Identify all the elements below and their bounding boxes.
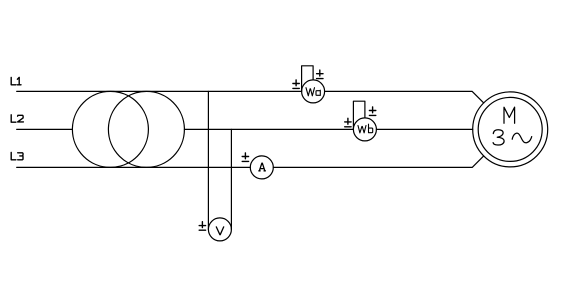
voltmeter V1 polarity mark: [199, 222, 205, 231]
voltmeter V1: [208, 218, 231, 241]
ammeter A1 polarity mark: [242, 153, 248, 162]
motor M1 letter M: [504, 107, 515, 123]
wire L3 ammeter to motor: [273, 156, 483, 168]
wire L3 terminal to ammeter: [17, 166, 251, 168]
motor M1 tilde: [512, 133, 532, 143]
motor M1 digit 3: [493, 130, 504, 145]
motor M1 outer circle: [473, 92, 548, 167]
wattmeter Wa: [302, 80, 325, 103]
wire L2 wattmeter Wb to motor: [376, 128, 472, 130]
transformer T1 right winding: [108, 91, 184, 167]
wattmeter Wb polarity mark right: [369, 107, 375, 116]
transformer T1 left winding: [72, 91, 148, 167]
wire L2 terminal to transformer: [17, 128, 73, 130]
wattmeter Wa polarity mark left: [293, 80, 299, 89]
motor M1 inner circle: [478, 97, 542, 161]
wire L1 wattmeter Wa to motor: [325, 91, 484, 103]
wattmeter Wb polarity mark left: [345, 118, 351, 127]
wire L2 transformer to wattmeter Wb: [184, 128, 353, 130]
wire voltmeter tap from L2: [230, 129, 232, 229]
wattmeter Wb voltage-coil loop: [353, 101, 365, 129]
wire L1 terminal to wattmeter Wa: [17, 90, 302, 92]
node L2: [11, 115, 23, 122]
wattmeter Wb: [353, 118, 376, 141]
node L3: [11, 152, 23, 159]
node L1: [11, 77, 21, 84]
ammeter A1: [250, 156, 273, 179]
wattmeter Wa voltage-coil loop: [302, 66, 314, 92]
wattmeter Wa polarity mark right: [317, 70, 323, 79]
wire voltmeter tap from L1: [207, 91, 209, 229]
